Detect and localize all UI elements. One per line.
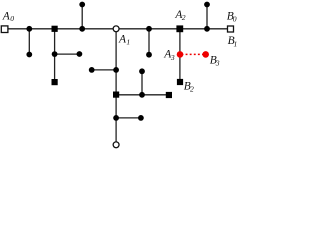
label A1: [118, 33, 130, 46]
wire red dashed link A3 to B3: [182, 53, 205, 55]
node filled circle on backbone x=82: [79, 26, 85, 32]
node leaf square x=54.6 y=82: [52, 79, 58, 85]
wire horizontal at y=117.9: [116, 117, 141, 119]
node filled circle on backbone x=29: [26, 26, 32, 32]
wire drop from node at x=149: [148, 29, 150, 55]
node leaf circle top x=207: [204, 2, 210, 8]
svg-text:1: 1: [126, 37, 130, 46]
wire main horizontal backbone: [8, 28, 228, 30]
node leaf circle x=140.9 y=117.9: [138, 115, 144, 121]
svg-text:2: 2: [190, 85, 194, 94]
wire pendant up from x=142: [141, 71, 143, 95]
node leaf circle x=91.7 y=69.9: [89, 67, 95, 73]
svg-text:2: 2: [182, 13, 186, 22]
node B0 B1 open square: [228, 26, 234, 32]
wire horizontal at y=69.9: [92, 69, 116, 71]
label B0: [227, 11, 237, 24]
node junction circle x=142 y=94.8: [139, 92, 145, 98]
svg-text:1: 1: [234, 39, 238, 48]
node filled square on backbone x=54.7: [52, 26, 58, 32]
wire drop from square at x=54.7 down to leaf square: [54, 29, 56, 79]
node A0 open square: [1, 26, 8, 33]
node junction circle on trunk y=69.9: [113, 67, 119, 73]
node leaf square x=168.9 y=95: [166, 92, 172, 98]
svg-text:0: 0: [233, 14, 237, 23]
svg-text:3: 3: [170, 53, 175, 62]
wire drop from A2 down to B2: [179, 29, 181, 82]
node filled circle on backbone x=207: [204, 26, 210, 32]
node leaf circle top x=82: [79, 2, 85, 8]
node leaf circle below x=149: [146, 52, 152, 58]
label A0: [2, 11, 14, 24]
wire vertical trunk below A1: [115, 32, 117, 142]
node leaf circle x=142 y=71.3: [139, 68, 145, 74]
node A1 open circle: [113, 26, 119, 32]
label B1: [228, 35, 238, 48]
label B2: [184, 80, 194, 93]
svg-text:3: 3: [215, 59, 220, 68]
node B3 red circle: [202, 51, 209, 58]
label A2: [174, 9, 185, 22]
node leaf circle below x=29: [26, 52, 32, 58]
wire horizontal at y=54 from junction to leaf: [55, 53, 80, 55]
wire horizontal at y=94.8: [116, 94, 169, 96]
node filled circle on backbone x=149: [146, 26, 152, 32]
wire up from node at x=207: [206, 5, 208, 29]
label A3: [163, 49, 175, 62]
node junction circle on trunk y=117.9: [113, 115, 119, 121]
node A3 red circle: [177, 51, 184, 58]
wire drop from node at x=29: [28, 29, 30, 55]
node junction circle x=54.6 y=54.1: [52, 51, 58, 57]
node junction square on trunk y=94.6: [113, 92, 119, 98]
node open circle bottom of trunk: [113, 142, 119, 148]
node A2 filled square: [176, 25, 183, 32]
label B3: [210, 54, 220, 67]
svg-text:0: 0: [10, 14, 14, 23]
node leaf circle x=79.4 y=54: [77, 51, 83, 57]
wire up from node at x=82: [81, 5, 83, 29]
node B2 filled square: [177, 79, 183, 85]
